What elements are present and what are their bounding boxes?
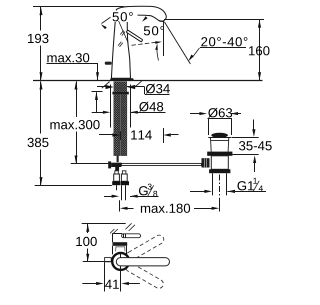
pop-up rod cross fitting: [108, 161, 111, 168]
wire lever horizontal dash-dot position line: [132, 42, 158, 45]
node 50-degree angle arc #1: [102, 17, 112, 24]
node G1-1/4 thread label: [190, 191, 205, 193]
plan view lever bar swivel down (dashed): [124, 261, 165, 290]
wire diameter-48 extension line left: [110, 85, 112, 128]
drain knurled rod coupling: [202, 158, 210, 167]
node max.180 dimension: [119, 200, 121, 211]
pop-up rod knob behind body: [105, 62, 112, 65]
plan view spout (pointing up): [112, 233, 114, 242]
node 114 dimension: [99, 134, 113, 136]
deck hatch right: [134, 81, 142, 88]
spout outlet face dark edge: [159, 20, 164, 23]
drain tailpipe: [212, 173, 214, 195]
plan view lever bar swivel up (dashed): [125, 234, 166, 263]
hose connector right nipple: [122, 171, 126, 174]
wire outlet vertical reference: [163, 22, 165, 57]
node 50-degree angle arc #2: [142, 25, 162, 37]
plan view faucet centerline vertical: [120, 253, 122, 270]
node diameter 63 dimension: [190, 113, 200, 115]
drain locknut dark band: [207, 152, 232, 156]
drain tailpipe centerline: [219, 175, 221, 197]
plan view body sides: [112, 246, 114, 255]
mounting nut band: [112, 92, 128, 95]
faucet U1 body and spout outline: [111, 6, 166, 78]
wire max.30 lower reference line: [92, 91, 103, 93]
lever handle stick: [126, 30, 143, 42]
hose connector right nut: [121, 181, 129, 185]
plan view lever dash marks: [125, 223, 131, 229]
plan view lever bar solid (horizontal): [116, 258, 169, 266]
pop-up vertical rod below hoses: [117, 156, 119, 163]
plan view aerator hatch marks: [110, 229, 114, 233]
wire diameter-48 extension line right: [130, 85, 132, 128]
wire 385 bottom reference line: [35, 185, 112, 187]
node 20-40 degree label: [201, 37, 247, 46]
node max.300 dimension: [76, 81, 78, 117]
drain flange rim: [208, 137, 231, 139]
plan view cartridge dark band: [113, 242, 128, 246]
wire plan-view top reference line: [82, 223, 126, 225]
node 41 dimension: [104, 262, 106, 291]
supply hose left column: [114, 94, 120, 155]
hose connector left nipple: [115, 171, 119, 174]
node diameter 48 dimension: [92, 112, 103, 114]
node G3/8 thread label: [104, 196, 112, 198]
drain lower seal band: [209, 169, 230, 173]
node diameter 34 dimension: [97, 86, 107, 88]
node 193 dimension: [40, 7, 42, 31]
node 100 dimension: [87, 224, 89, 233]
wire counter/deck line: [33, 80, 263, 82]
plan view base circle: [112, 253, 129, 270]
drain plug dome: [211, 133, 228, 138]
drain body: [211, 156, 228, 170]
node 385 dimension: [40, 81, 42, 133]
hose tail left: [116, 185, 118, 190]
hose connector left tube: [114, 174, 120, 181]
hose connector left nut: [112, 181, 120, 185]
deck hatch left: [102, 82, 110, 89]
body internal dash marks: [120, 30, 123, 34]
wire top reference line (spout top level): [33, 6, 124, 8]
wire max.300 bottom reference line / pop-up rod left line: [71, 163, 111, 165]
wire drain centerline tick: [219, 198, 221, 212]
escutcheon base plate: [110, 78, 134, 81]
plan view lever seen from above: [122, 234, 141, 238]
wire spout outlet level line (160 ref): [164, 19, 264, 21]
node 160 dimension: [259, 20, 261, 81]
plan view inner spout base: [116, 247, 125, 252]
node 35-45 dimension: [232, 137, 259, 139]
wire plan-view bottom reference line: [83, 261, 111, 263]
wire lever alt position thin line: [119, 21, 129, 43]
wire small angle pointer arc near outlet: [157, 45, 159, 61]
wire 20-40 degree spray diagonal: [165, 22, 191, 64]
node max.30 dimension: [47, 53, 89, 62]
drain flange neck: [211, 138, 229, 152]
supply hose right column: [121, 94, 127, 155]
hose connector right tube: [121, 174, 127, 181]
plan view left tab: [105, 258, 112, 262]
threaded shank below deck: [114, 82, 127, 92]
hose tail right G3/8 pipe: [121, 185, 123, 200]
wire diameter-63 extension lines: [208, 118, 210, 135]
wire spout reach reference line: [163, 128, 165, 143]
pop-up horizontal rod to drain: [121, 163, 201, 165]
